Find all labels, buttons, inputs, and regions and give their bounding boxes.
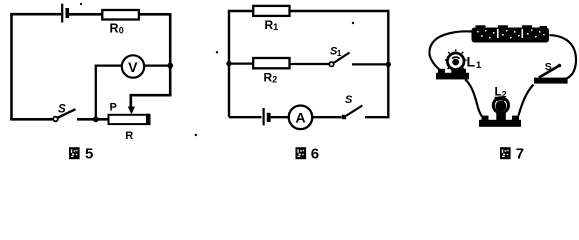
caption: 图 5 <box>69 145 93 162</box>
switch S blade, fig6 <box>346 106 363 117</box>
wire: S1 to right junction, fig6 <box>352 63 388 65</box>
wire: right side, fig6 <box>387 10 389 117</box>
wire: left side, fig6 <box>228 11 230 117</box>
speck above battery <box>80 3 82 5</box>
speck below fig5 rheostat <box>195 134 197 136</box>
svg-text:S: S <box>345 94 353 106</box>
lamp L2 screw neck <box>496 113 506 121</box>
svg-text:R: R <box>264 71 273 85</box>
wire: left side of loop, fig5 <box>10 14 13 120</box>
svg-text:V: V <box>128 59 138 75</box>
node: junction of voltmeter branch and right wire <box>167 63 173 69</box>
wire: bottom left, fig5 <box>10 118 52 121</box>
lamp L1 filament <box>452 57 460 65</box>
wire: middle branch left, fig6 <box>229 62 254 64</box>
switch S1 pivot, fig6 <box>329 62 333 66</box>
battery cell, fig5: short thick plate <box>66 8 70 18</box>
wire: bottom left segment, fig6 <box>229 116 262 118</box>
wire: R2 to switch S1, fig6 <box>290 63 330 65</box>
wire: voltmeter left lead down to bottom junction <box>96 66 122 119</box>
battery cell, fig5: long plate <box>61 4 63 23</box>
wire: L1 socket to lamp L2 socket, fig7 <box>465 79 482 116</box>
svg-text:S: S <box>545 61 552 73</box>
switch S blade, fig5 <box>58 109 76 118</box>
wire: switch base to battery right end, fig7 <box>550 35 577 78</box>
wire: voltmeter right lead <box>143 64 171 66</box>
node: left junction of middle branch <box>226 61 231 66</box>
lamp L2 socket base, fig7 <box>479 120 521 127</box>
svg-text:2: 2 <box>272 75 277 85</box>
wire: top left to R1, fig6 <box>228 10 254 12</box>
svg-text:S: S <box>58 104 66 116</box>
ammeter A, fig6 <box>289 106 313 130</box>
wire: R1 to top-right corner, fig6 <box>290 10 389 12</box>
svg-text:1: 1 <box>273 22 278 32</box>
node: junction on bottom wire, fig5 <box>93 116 99 122</box>
battery cell, fig6: long plate <box>263 108 265 125</box>
resistor R2 (box) <box>253 58 289 68</box>
lamp L1 socket terminals <box>438 69 445 73</box>
svg-text:1: 1 <box>476 60 482 71</box>
wire: top, battery to R0, fig5 <box>69 13 103 16</box>
wire: ammeter to switch S, fig6 <box>312 116 342 118</box>
svg-text:5: 5 <box>85 145 93 162</box>
label R2 <box>264 71 278 85</box>
svg-text:R: R <box>110 22 119 36</box>
svg-text:R: R <box>125 130 133 142</box>
svg-text:0: 0 <box>119 26 124 36</box>
caption: 图 7 <box>500 145 524 162</box>
lamp L1 bulb globe <box>447 53 464 70</box>
switch S pivot, fig5 <box>53 117 58 122</box>
resistor R1 (box) <box>253 6 289 16</box>
voltmeter V, fig5 <box>122 55 144 77</box>
wire: top, battery left segment, fig5 <box>10 13 61 16</box>
wire: L2 socket to switch base, fig7 <box>519 85 534 116</box>
switch S1 blade, fig6 <box>334 53 350 64</box>
svg-text:L: L <box>467 54 476 70</box>
switch S base, fig7 <box>534 78 568 84</box>
wire: R0 right, down right side, elbow to slider, fig5 <box>131 14 170 109</box>
speck, fig6 <box>352 22 354 24</box>
label S1 <box>330 46 342 59</box>
resistor R0 (box) <box>102 10 139 20</box>
label R1 <box>265 18 279 32</box>
label L2 <box>495 85 507 99</box>
svg-text:1: 1 <box>337 48 342 58</box>
svg-text:6: 6 <box>311 145 319 162</box>
rheostat right end cap <box>146 114 150 125</box>
switch S blade, fig7 <box>539 66 559 78</box>
battery cell, fig6: short thick plate <box>267 113 271 122</box>
lamp L2 socket terminals <box>482 116 489 121</box>
svg-text:A: A <box>295 110 305 126</box>
svg-text:R: R <box>265 18 274 32</box>
lamp L2 bulb globe <box>493 98 508 113</box>
svg-text:7: 7 <box>516 145 524 162</box>
wire: switch to bottom-right corner, fig6 <box>365 116 390 118</box>
switch S pivot, fig6 <box>342 115 346 119</box>
wire: switch to rheostat, fig5 <box>77 118 109 121</box>
label L1 <box>467 54 483 72</box>
label R0 <box>110 22 124 36</box>
lamp L1 globe ray ticks <box>445 49 467 69</box>
svg-text:P: P <box>110 102 117 114</box>
arrowhead of slider P pointing down onto rheostat <box>128 107 135 115</box>
battery pack (three cells), fig7 <box>472 25 550 42</box>
lamp L2 filament <box>496 99 507 111</box>
node: right junction of middle branch <box>386 62 391 67</box>
lamp L1 socket base, fig7 <box>436 73 469 80</box>
wire: battery left end to lamp L1 socket, fig7 <box>429 31 472 69</box>
switch S knob <box>558 64 562 68</box>
rheostat R (box), fig5 <box>109 115 150 124</box>
speck left of fig6 <box>216 51 218 53</box>
caption: 图 6 <box>296 145 320 162</box>
lamp L1 screw neck <box>451 67 460 73</box>
svg-text:L: L <box>495 85 502 99</box>
wire: battery to ammeter, fig6 <box>271 116 289 118</box>
